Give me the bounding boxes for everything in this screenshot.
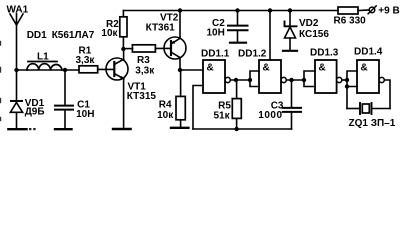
node DD1.4 tie upper bbox=[345, 78, 349, 82]
inductor L1 bbox=[27, 52, 62, 71]
wire bottom feedback bbox=[193, 128, 292, 130]
resistor R1 bbox=[76, 46, 98, 73]
wire rail to DD1.2 power pin bbox=[268, 8, 272, 60]
wire DD1.4 out to ZQ1 bbox=[384, 80, 390, 109]
wire DD1.3 out to DD1.4 bbox=[342, 79, 347, 81]
resistor R5 bbox=[214, 80, 242, 131]
wire R3 to VT2 base bbox=[155, 47, 170, 49]
svg-text:R6 330: R6 330 bbox=[334, 15, 367, 26]
wire VT2 emitter to rail bbox=[179, 11, 181, 39]
svg-text:DD1.3: DD1.3 bbox=[310, 48, 339, 59]
svg-text:КТ361: КТ361 bbox=[146, 23, 176, 34]
ground under C1 bbox=[55, 128, 72, 130]
wire DD1.2 out to DD1.3 bbox=[286, 79, 304, 81]
wire DD1.4 input ties bbox=[347, 71, 357, 109]
node R2/R3/collector bbox=[121, 47, 125, 51]
wire L1 row bbox=[17, 69, 80, 71]
svg-text:DD1.4: DD1.4 bbox=[354, 47, 383, 58]
capacitor C1 bbox=[55, 70, 94, 128]
node DD1.3 tie bbox=[302, 78, 306, 82]
svg-text:10к: 10к bbox=[101, 28, 118, 39]
wire VT2 collector down bbox=[179, 57, 181, 70]
scan specks bbox=[29, 128, 36, 130]
svg-text:1000: 1000 bbox=[258, 110, 282, 121]
ground under VD2 bbox=[283, 50, 297, 52]
scan edge marks bbox=[0, 42, 2, 121]
resistor R6 bbox=[334, 7, 367, 26]
piezo ZQ1 bbox=[347, 103, 396, 129]
wire VT2 collector to DD1.1 input bbox=[180, 69, 203, 71]
ground under VT1 bbox=[113, 128, 131, 130]
transistor VT2 bbox=[146, 13, 186, 60]
svg-text:3,3к: 3,3к bbox=[76, 55, 96, 66]
ground under R4 bbox=[171, 127, 188, 129]
svg-text:3,3к: 3,3к bbox=[135, 66, 155, 77]
node R5 top bbox=[234, 78, 238, 82]
wire R2 to collector node bbox=[122, 37, 124, 49]
svg-text:&: & bbox=[361, 62, 368, 73]
wire DD1.1 input2 from bottom bbox=[193, 86, 203, 130]
svg-text:КТ315: КТ315 bbox=[127, 91, 157, 102]
svg-text:51к: 51к bbox=[214, 110, 231, 121]
resistor R3 bbox=[132, 45, 155, 77]
svg-text:WA1: WA1 bbox=[7, 5, 29, 16]
node C1 junction bbox=[63, 68, 67, 72]
ground under C2 bbox=[230, 42, 246, 44]
wire VT1 emitter down bbox=[123, 79, 125, 128]
svg-text:10Н: 10Н bbox=[207, 28, 225, 39]
wire DD1.2 input ties bbox=[250, 71, 259, 87]
node rail/VT2 bbox=[178, 8, 182, 12]
svg-text:10Н: 10Н bbox=[76, 109, 94, 120]
svg-text:DD1 К561ЛА7: DD1 К561ЛА7 bbox=[27, 30, 95, 41]
svg-text:Д9Б: Д9Б bbox=[25, 107, 45, 118]
resistor R4 bbox=[157, 96, 185, 121]
svg-text:DD1.1: DD1.1 bbox=[201, 49, 230, 60]
svg-text:R3: R3 bbox=[137, 55, 150, 66]
power rail +9V bbox=[123, 10, 338, 12]
svg-text:&: & bbox=[263, 62, 270, 73]
transistor VT1 bbox=[106, 58, 156, 102]
svg-text:&: & bbox=[319, 62, 326, 73]
resistor R2 bbox=[101, 17, 127, 39]
wire antenna lead bbox=[16, 25, 18, 70]
wire VT1 collector up bbox=[123, 49, 125, 59]
svg-text:+9 В: +9 В bbox=[378, 5, 399, 16]
capacitor C3 bbox=[258, 80, 301, 129]
svg-text:ZQ1 ЗП–1: ZQ1 ЗП–1 bbox=[349, 118, 396, 129]
wire DD1.1 out to DD1.2 bbox=[230, 79, 250, 81]
antenna WA1 bbox=[7, 5, 29, 25]
svg-text:VD2: VD2 bbox=[299, 18, 319, 29]
node C3 top bbox=[289, 78, 293, 82]
ground under VD1 bbox=[8, 128, 26, 130]
gate DD1.3 bbox=[310, 48, 342, 94]
wire node to R3 bbox=[123, 48, 132, 50]
wire R1 to VT1 base bbox=[98, 68, 114, 70]
gate DD1.2 bbox=[238, 49, 286, 93]
wire rail corner to R2 bbox=[122, 11, 124, 17]
zener VD2 bbox=[285, 8, 330, 50]
gate DD1.1 bbox=[201, 49, 230, 93]
node antenna junction bbox=[14, 68, 18, 72]
wire R4 to ground bbox=[180, 120, 182, 127]
svg-text:DD1.2: DD1.2 bbox=[238, 49, 267, 60]
wire DD1.3 input ties bbox=[304, 71, 315, 87]
node DD1.4 tie lower bbox=[345, 84, 349, 88]
wire node to R4 bbox=[180, 70, 182, 96]
svg-text:R4: R4 bbox=[159, 99, 172, 110]
wire R6 to terminal bbox=[358, 9, 369, 12]
diode VD1 bbox=[10, 70, 44, 128]
node DD1.2 tie bbox=[248, 78, 252, 82]
svg-text:КС156: КС156 bbox=[299, 29, 329, 40]
capacitor C2 bbox=[207, 8, 248, 42]
gate DD1.4 bbox=[354, 47, 384, 94]
svg-text:&: & bbox=[207, 62, 214, 73]
svg-text:10к: 10к bbox=[157, 110, 174, 121]
node VT2 collector bbox=[178, 68, 182, 72]
terminal +9V bbox=[368, 5, 400, 16]
